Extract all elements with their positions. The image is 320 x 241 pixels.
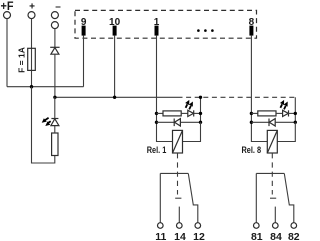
svg-text:F = 1A: F = 1A (17, 47, 27, 73)
pin 10 (109, 17, 121, 36)
wire + down through fuse (31, 19, 33, 87)
relay8 right node wire to minus rail (294, 97, 296, 122)
LED V2 arrows (42, 118, 51, 126)
wire LED to minus junction (54, 97, 56, 118)
terminal - (two bridged points) (51, 1, 61, 28)
wire pin 10 down to minus rail (114, 36, 116, 98)
junction relay8 right / resistor branch (294, 112, 297, 115)
wire diode V6 to right node (275, 121, 295, 123)
LED V3 arrows (185, 100, 193, 110)
svg-text:+: + (29, 1, 35, 12)
wire - down to diode (54, 29, 56, 48)
minus rail dashed continuation (184, 96, 296, 98)
wire resistor R2 to LED (181, 112, 188, 114)
contact 8 top bar (256, 172, 284, 174)
svg-text:9: 9 (81, 17, 87, 28)
relay 8 coil (267, 130, 277, 153)
wire resistor R3 to LED (276, 112, 283, 114)
wire +F down (6, 19, 8, 87)
svg-text:Rel. 1: Rel. 1 (147, 145, 167, 155)
relay 1 coil (173, 130, 183, 153)
terminal circle 14 (177, 223, 183, 229)
ellipsis dots (197, 29, 214, 32)
pin 9 (81, 17, 87, 36)
relay8 right node wire down to coil (277, 122, 295, 141)
wire - below diode to minus rail (54, 54, 56, 97)
resistor R1 (52, 133, 58, 156)
svg-text:82: 82 (288, 231, 300, 241)
junction minus rail / - column (53, 96, 56, 99)
contact 1 blade to NC (188, 173, 198, 222)
wire LED V3 to right node (194, 112, 201, 114)
relay8 freewheel diode branch wire left (251, 121, 269, 123)
svg-text:Rel. 8: Rel. 8 (242, 145, 262, 155)
relay1 right node wire to minus rail (200, 97, 202, 122)
junction plus rail / + column (30, 85, 33, 88)
power LED branch wire from + column (32, 87, 55, 163)
LED V5 arrows (280, 100, 288, 110)
LED V5 (relay 8 indicator) (283, 110, 289, 116)
svg-text:+F: +F (1, 0, 14, 13)
contact 8 common wire 81 (255, 173, 257, 222)
contact 1 top bar (160, 172, 188, 174)
wire pin 8 down to relay 8 coil (251, 36, 267, 142)
terminal circle 82 (291, 223, 297, 229)
svg-text:1: 1 (154, 17, 160, 28)
minus rail solid (55, 96, 183, 98)
junction relay1 left / diode branch (155, 121, 158, 124)
terminal circle 84 (273, 223, 279, 229)
junction relay1 right / diode branch (199, 121, 202, 124)
svg-text:11: 11 (155, 231, 166, 241)
junction minus rail / relay1 (199, 96, 202, 99)
LED V2 (power indicator) (51, 119, 59, 126)
svg-text:14: 14 (174, 231, 186, 241)
relay 8 actuator end tick (270, 197, 276, 199)
junction minus rail / pin 10 (113, 96, 116, 99)
connector dashed box (75, 10, 257, 38)
diode V6 (freewheel) (269, 119, 275, 127)
wire pin 1 down to relay 1 coil (157, 36, 173, 142)
wire diode V4 to right node (180, 121, 200, 123)
junction relay8 left / resistor branch (250, 112, 253, 115)
resistor R2 (163, 111, 181, 116)
diode V4 (freewheel) (174, 119, 180, 127)
svg-text:–: – (55, 1, 61, 12)
svg-text:12: 12 (193, 231, 205, 241)
wire resistor to LED (54, 126, 56, 133)
pin 8 (249, 17, 255, 36)
plus rail (fused) (7, 86, 84, 88)
relay1 freewheel diode branch wire left (157, 121, 175, 123)
relay1 resistor branch wire left (157, 112, 164, 114)
junction relay1 right / resistor branch (199, 112, 202, 115)
contact 8 blade to NC (284, 173, 294, 222)
LED V3 (relay 1 indicator) (188, 110, 194, 116)
relay8 resistor branch wire left (251, 112, 257, 114)
relay 1 actuator dashed link (177, 153, 179, 194)
svg-text:81: 81 (251, 231, 263, 241)
svg-text:84: 84 (270, 231, 282, 241)
junction relay8 right / diode branch (294, 121, 297, 124)
terminal +F (1, 0, 14, 19)
relay 8 actuator dashed link (271, 153, 273, 194)
diode V1 (reverse protection) (50, 47, 59, 54)
junction relay1 left / resistor branch (155, 112, 158, 115)
svg-text:10: 10 (109, 17, 121, 28)
terminal circle 11 (158, 223, 164, 229)
relay 1 actuator end tick (175, 197, 181, 199)
contact 1 NO wire 14 (178, 207, 180, 223)
resistor R3 (258, 111, 276, 116)
contact 8 NO wire 84 (274, 207, 276, 223)
terminal + (28, 1, 35, 18)
terminal circle 12 (195, 223, 201, 229)
fuse F1 (28, 48, 36, 70)
wire LED V5 to right node (289, 112, 296, 114)
junction relay8 left / diode branch (250, 121, 253, 124)
pin 1 (154, 17, 160, 36)
terminal circle 81 (253, 223, 259, 229)
contact 1 common wire 11 (159, 173, 161, 222)
wire pin 9 down to plus rail (83, 36, 85, 87)
svg-text:8: 8 (249, 17, 255, 28)
relay1 right node wire down to coil (183, 122, 201, 141)
